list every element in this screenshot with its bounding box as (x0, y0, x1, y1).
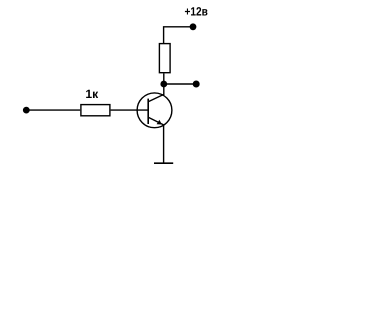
transistor Q1 base bar (147, 99, 149, 124)
resistor R1 (collector load, vertical) (159, 44, 170, 73)
wire junction down to transistor collector (163, 84, 165, 95)
wire from resistor R1 bottom to collector junction (163, 73, 165, 84)
junction collector node (160, 81, 167, 88)
wire transistor emitter to ground (163, 125, 165, 163)
transistor Q1 emitter stroke (148, 117, 163, 125)
transistor Q1 collector stroke (148, 94, 164, 101)
wire from +12v terminal to resistor R1 top (164, 27, 193, 43)
transistor Q1 emitter arrowhead (157, 120, 162, 125)
resistor R2 (base resistor, horizontal) (81, 105, 110, 116)
svg-text:+12в: +12в (185, 4, 208, 18)
input terminal dot (23, 107, 30, 114)
wire input terminal to resistor R2 (26, 109, 80, 111)
ground (154, 162, 173, 164)
node +12v terminal dot (190, 23, 197, 30)
output terminal dot (193, 81, 200, 88)
svg-text:1к: 1к (85, 87, 99, 101)
wire resistor R2 to transistor base (111, 109, 149, 111)
transistor Q1 circle (137, 93, 172, 128)
wire junction to output terminal (164, 83, 196, 85)
